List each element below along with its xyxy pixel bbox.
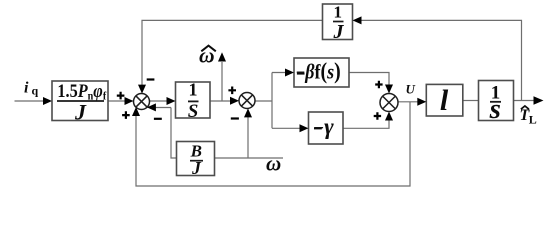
svg-text:l: l	[440, 84, 449, 117]
svg-text:L: L	[529, 113, 537, 127]
svg-text:−βf(s): −βf(s)	[296, 58, 341, 84]
svg-text:s: s	[489, 93, 501, 125]
svg-text:ω: ω	[266, 152, 281, 176]
svg-text:J: J	[74, 99, 87, 124]
svg-text:i: i	[24, 80, 29, 97]
svg-text:1: 1	[189, 80, 198, 100]
svg-text:J: J	[191, 158, 202, 178]
svg-text:−γ: −γ	[313, 114, 334, 139]
svg-text:S: S	[188, 101, 199, 122]
svg-text:J: J	[333, 21, 345, 43]
svg-text:q: q	[32, 84, 39, 98]
svg-text:1: 1	[334, 3, 343, 22]
svg-text:U: U	[406, 82, 416, 97]
